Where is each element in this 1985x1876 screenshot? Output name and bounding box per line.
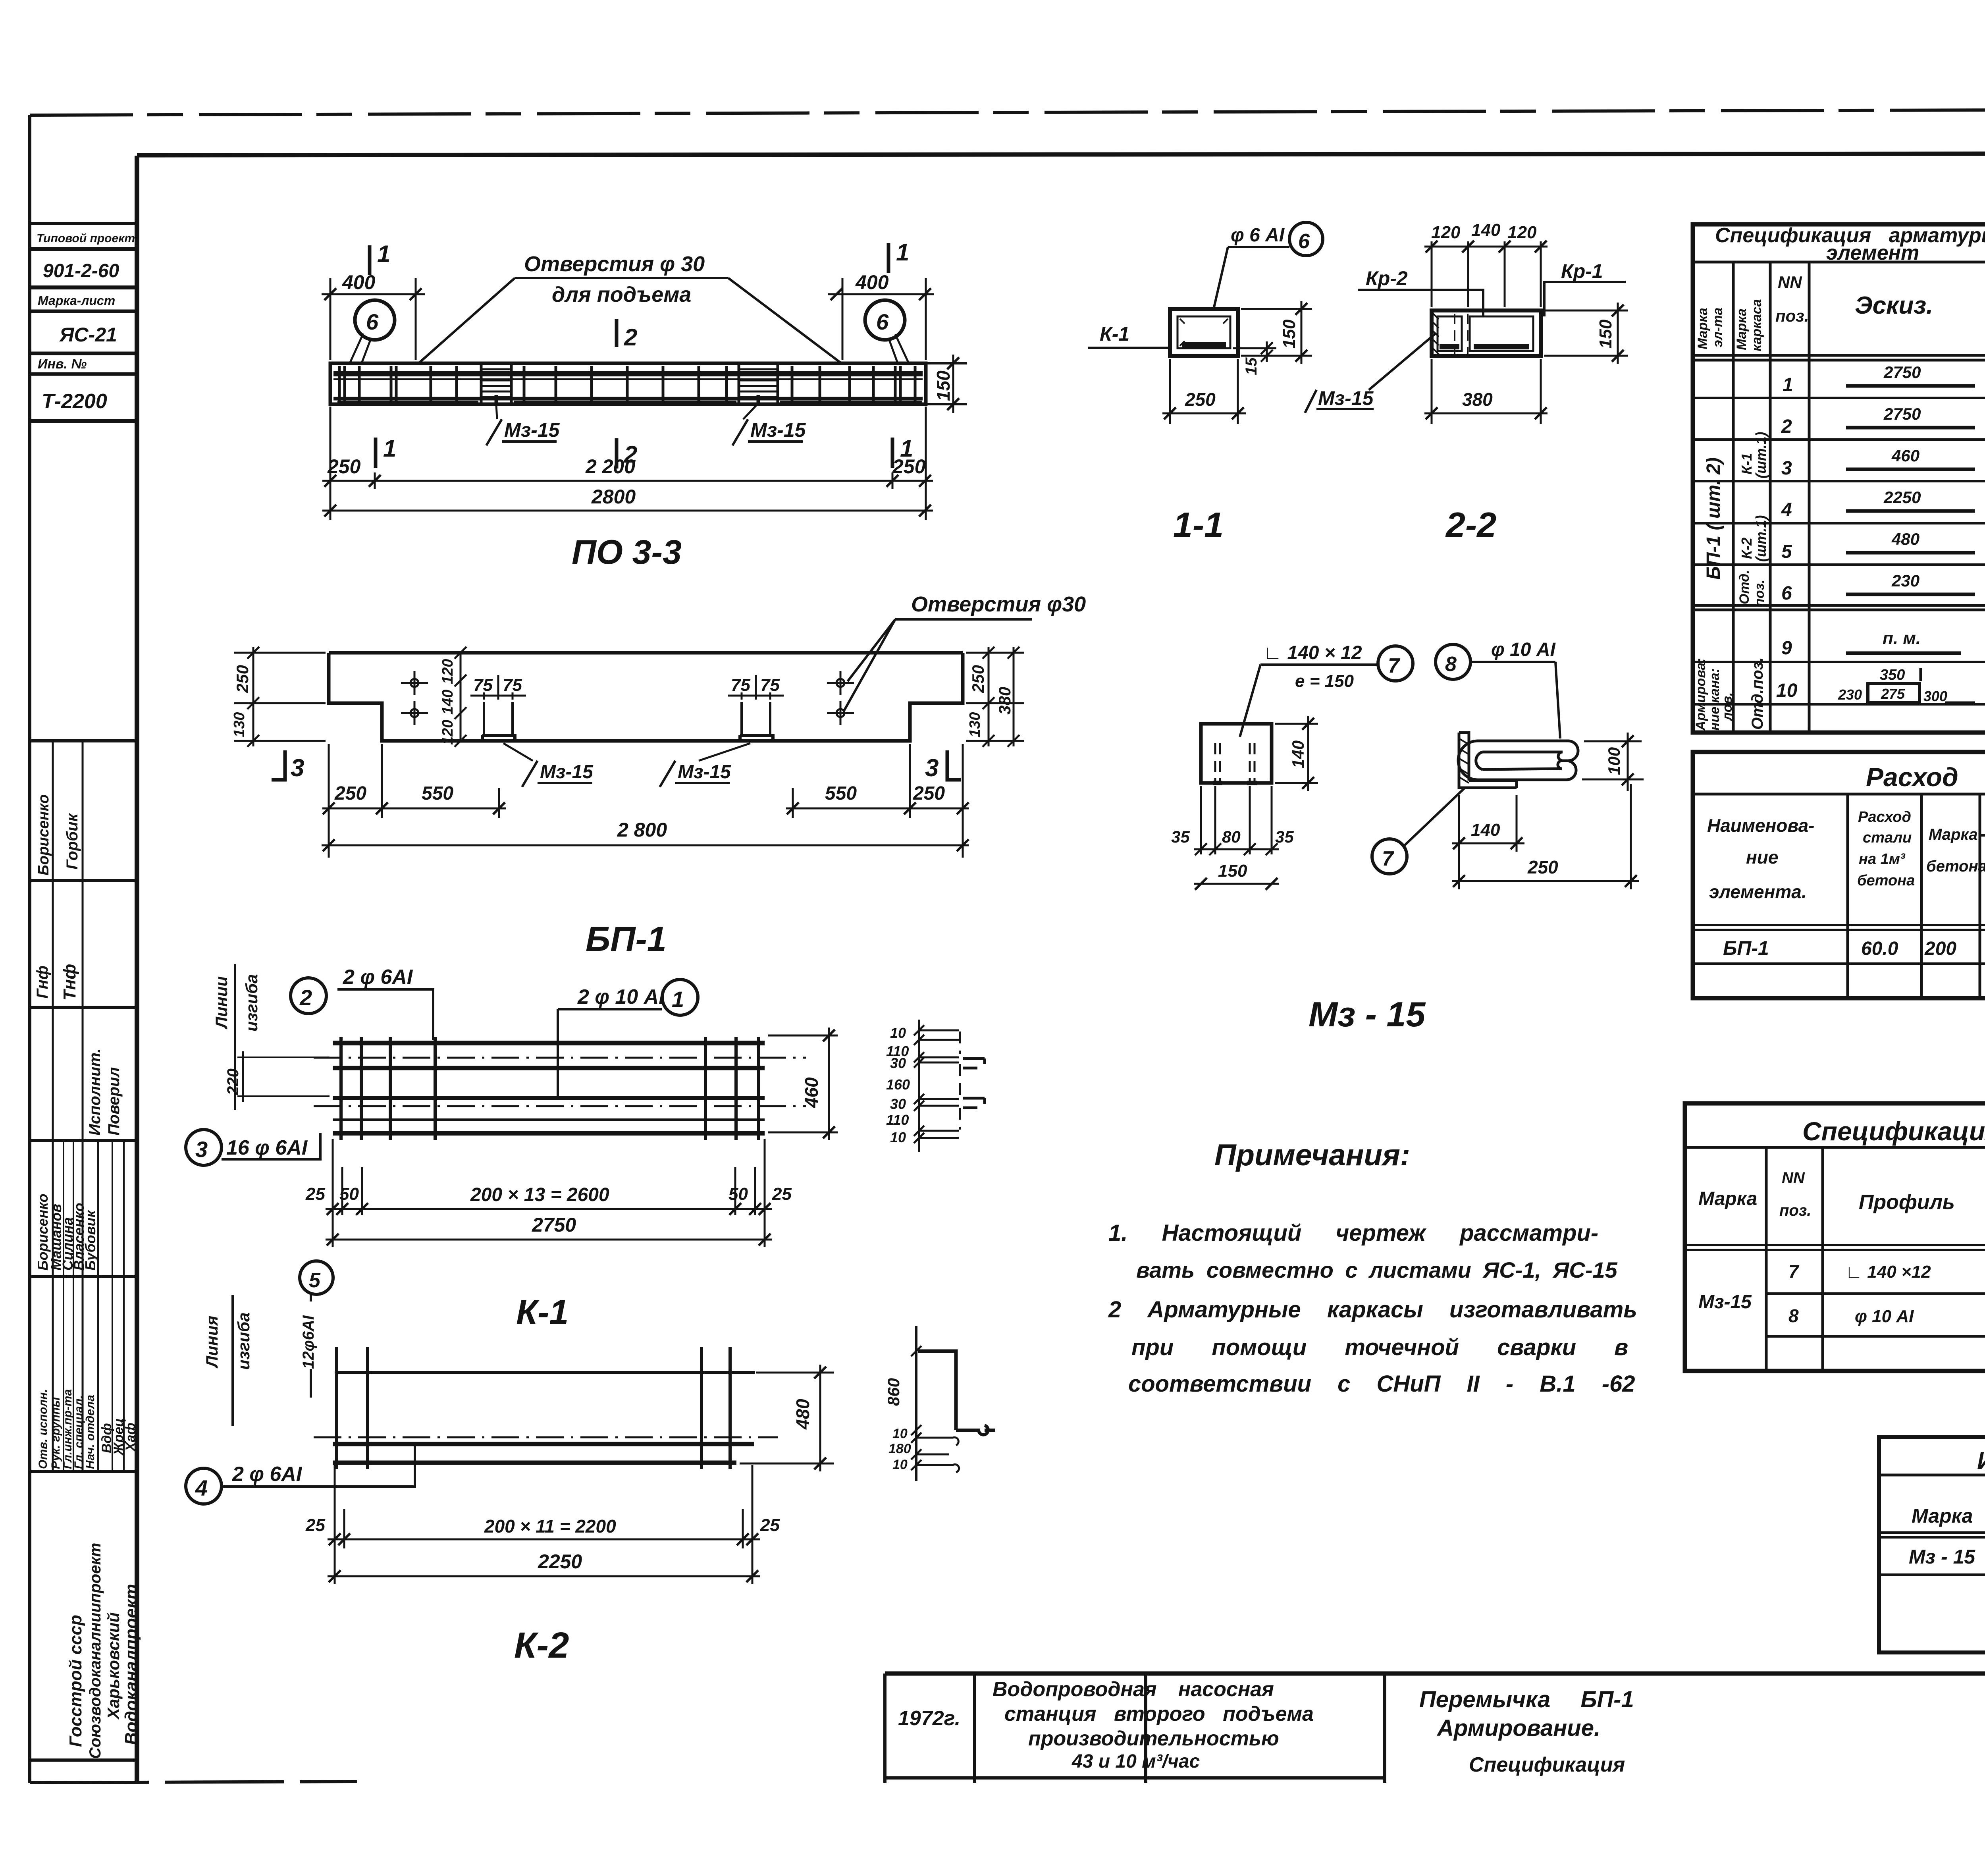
svg-text:100: 100 [1605,747,1623,775]
svg-text:35: 35 [1275,827,1294,846]
header lines [1693,261,1985,264]
svg-text:120: 120 [439,659,456,684]
callout 5 rotated label [300,1261,333,1294]
stirrups [339,366,915,402]
svg-text:Наименова-: Наименова- [1707,815,1814,836]
svg-text:2: 2 [1781,416,1792,437]
svg-text:Исполнит.: Исполнит. [86,1048,104,1136]
svg-text:1: 1 [672,987,684,1012]
svg-text:150: 150 [1280,319,1299,349]
svg-text:140: 140 [1471,220,1501,240]
right mini sketch 860 [915,1326,917,1481]
section cut 1 right top [887,243,890,273]
svg-text:6: 6 [1781,583,1792,604]
svg-text:элемент: элемент [1826,241,1919,264]
svg-text:4: 4 [195,1475,208,1500]
svg-text:Типовой проект: Типовой проект [37,232,135,245]
svg-text:поз.: поз. [1775,307,1809,325]
svg-text:Поверил: Поверил [105,1067,123,1136]
svg-text:соответствии с СНиП II - В.: соответствии с СНиП II - В.1 -62 [1128,1371,1635,1397]
svg-text:2-2: 2-2 [1445,505,1496,544]
bottom title block [885,1674,1985,1783]
svg-text:10: 10 [890,1025,906,1041]
svg-text:120: 120 [1507,223,1537,242]
svg-text:Отверстия φ 30: Отверстия φ 30 [524,252,705,276]
bottom dims 250 / 2200 / 250 [330,407,926,520]
svg-text:NN: NN [1782,1169,1805,1187]
svg-text:Отд.поз.: Отд.поз. [1749,657,1766,730]
svg-text:Армирование.: Армирование. [1436,1715,1600,1741]
detail M3-15 [1171,639,1644,1034]
svg-text:Отверстия φ30: Отверстия φ30 [911,592,1086,616]
bottom dims [335,1465,752,1584]
svg-text:30: 30 [890,1096,906,1112]
bend line [231,1295,234,1426]
svg-text:К-2: К-2 [1738,538,1755,559]
svg-text:Харьковский: Харьковский [104,1612,123,1720]
svg-text:200 × 11 = 2200: 200 × 11 = 2200 [484,1516,616,1537]
svg-text:станция второго подъема: станция второго подъема [1004,1702,1314,1726]
svg-text:∟ 140 ×12: ∟ 140 ×12 [1845,1262,1931,1282]
svg-text:150: 150 [1596,319,1615,349]
sheet inner border left (title strip right edge) [135,156,139,1783]
svg-text:Мз-15: Мз-15 [750,419,806,441]
svg-text:12φ6АI: 12φ6АI [300,1315,317,1369]
svg-text:Отд.: Отд. [1737,570,1752,604]
right mini stirrup sketch [918,1020,920,1152]
svg-text:1: 1 [383,435,396,462]
svg-text:860: 860 [884,1378,903,1406]
circle 8 and label f10AI [1436,644,1470,679]
svg-text:5: 5 [1781,541,1792,562]
callout 4 [186,1468,222,1504]
embedded angle left [482,735,515,741]
svg-text:(шт.1): (шт.1) [1753,432,1769,478]
svg-text:Бубовик: Бубовик [82,1210,98,1271]
svg-text:480: 480 [1891,530,1919,548]
stirrups [337,1347,730,1469]
bend line [234,964,236,1110]
svg-text:275: 275 [1881,686,1905,702]
sheet outer border left [28,115,31,1783]
svg-text:при помощи точечной сварки: при помощи точечной сварки в [1131,1334,1628,1360]
hook bar (U-bar with hooked ends) [1478,741,1578,761]
svg-text:Мз-15: Мз-15 [678,762,731,783]
svg-text:250: 250 [892,455,926,478]
dim 100 right [1582,741,1644,779]
svg-text:2 Арматурные каркасы изгота: 2 Арматурные каркасы изготавливать [1108,1297,1637,1323]
svg-text:Марка: Марка [1695,308,1710,349]
svg-text:Мз - 15: Мз - 15 [1309,995,1426,1034]
svg-text:140: 140 [439,690,456,715]
svg-text:на 1м³: на 1м³ [1859,851,1906,868]
svg-text:460: 460 [801,1077,822,1108]
dim 400 right [842,278,926,360]
dim 75 75 left [470,675,526,700]
svg-text:8: 8 [1445,653,1457,676]
svg-text:Примечания:: Примечания: [1214,1138,1410,1172]
svg-text:250: 250 [233,665,252,693]
svg-text:50: 50 [339,1184,359,1204]
notes block [1108,1138,1637,1397]
svg-text:Рук. группы: Рук. группы [49,1397,62,1469]
svg-text:200 × 13 = 2600: 200 × 13 = 2600 [470,1184,609,1205]
svg-text:К-1: К-1 [1738,453,1755,474]
svg-text:150: 150 [933,370,954,401]
svg-text:10: 10 [890,1129,906,1145]
dim 150 right [1544,310,1628,356]
svg-text:φ 6 АI: φ 6 АI [1231,225,1285,246]
svg-text:550: 550 [422,783,453,804]
callout circle 6 left [355,300,395,340]
overall dim 2800 [322,510,933,512]
svg-text:ПО 3-3: ПО 3-3 [572,533,682,571]
dim 150 right [929,363,965,404]
internal verticals [52,741,54,1471]
svg-text:250: 250 [1527,857,1558,877]
svg-text:10: 10 [1776,680,1798,701]
svg-text:75: 75 [503,675,522,695]
svg-text:лов.: лов. [1720,692,1735,721]
svg-text:30: 30 [890,1055,906,1071]
svg-text:3: 3 [291,754,304,782]
embedded angle right [740,735,773,741]
svg-text:6: 6 [366,309,379,334]
table: materials consumption [1693,752,1985,998]
svg-text:1972г.: 1972г. [898,1707,960,1730]
svg-text:230: 230 [1891,571,1919,590]
svg-text:110: 110 [886,1112,909,1128]
svg-text:6: 6 [1298,230,1310,253]
embedded part hatch right [739,364,778,404]
svg-text:901-2-60: 901-2-60 [43,260,119,281]
svg-text:Мз-15: Мз-15 [540,762,594,783]
dim 380 bottom [1432,359,1541,424]
svg-text:2250: 2250 [1883,488,1921,507]
embedded part hatch left [481,364,511,404]
svg-text:16 φ 6АI: 16 φ 6АI [226,1136,308,1159]
drawing K-1 : reinforcement cage [186,964,985,1332]
svg-text:2 φ 6АI: 2 φ 6АI [343,966,413,989]
dim 250 bottom [1170,359,1238,424]
svg-text:Марка: Марка [1912,1505,1973,1527]
section marks 3 [272,750,285,780]
svg-text:550: 550 [825,783,857,804]
svg-text:25: 25 [772,1184,792,1204]
svg-text:460: 460 [1891,446,1919,465]
plate view [1201,724,1272,783]
svg-text:Инв. №: Инв. № [38,357,87,372]
callout 3 [186,1130,222,1165]
dim 140 right of plate [1275,724,1318,783]
svg-text:75: 75 [760,675,780,695]
svg-text:Армирова:: Армирова: [1693,658,1708,731]
stirrups [341,1037,759,1140]
drawing PO 3-3 : beam elevation [322,239,967,571]
svg-text:e = 150: e = 150 [1295,671,1354,691]
dim 120 140 120 vertical at holes [460,653,462,741]
label M3-15 [1305,390,1374,413]
svg-text:вать совместно с листами ЯС: вать совместно с листами ЯС-1, ЯС-15 [1136,1257,1618,1282]
svg-text:4: 4 [1781,499,1792,521]
svg-text:Марка: Марка [1734,308,1749,350]
svg-text:2750: 2750 [1883,363,1921,382]
svg-text:2: 2 [299,985,312,1010]
svg-text:300: 300 [1923,688,1947,704]
dim 150 under plate [1194,883,1279,885]
drawing K-2 : reinforcement cage [186,1261,995,1666]
svg-text:изгиба: изгиба [234,1312,253,1370]
svg-text:Водопроводная насосная: Водопроводная насосная [992,1678,1274,1701]
sheet inner border top [137,153,1985,155]
svg-text:(шт.1): (шт.1) [1753,515,1769,562]
svg-text:Эскиз.: Эскиз. [1855,292,1933,319]
top dims 120 140 120 [1432,241,1541,307]
svg-text:3: 3 [195,1137,208,1162]
dim 75 75 right [728,675,784,700]
svg-text:1: 1 [1783,374,1793,395]
svg-text:Марка: Марка [1698,1188,1757,1209]
svg-text:Марка: Марка [1929,826,1978,843]
svg-text:Линия: Линия [202,1316,221,1369]
callout 1 [662,979,698,1015]
overall 2250 [328,1575,760,1577]
svg-text:Нач. отдела: Нач. отдела [84,1395,97,1469]
svg-text:2750: 2750 [532,1214,576,1236]
dims 35 80 35 under plate [1201,786,1272,854]
section cut 1 left [368,245,372,275]
svg-text:Мз-15: Мз-15 [1698,1292,1752,1313]
svg-text:3: 3 [1781,458,1792,479]
left signature strip [30,741,141,1760]
svg-text:250: 250 [327,455,361,478]
svg-text:250: 250 [969,665,987,693]
svg-text:К-1: К-1 [1100,323,1129,345]
svg-text:Профиль: Профиль [1859,1191,1955,1214]
section 1-1 [1088,222,1323,544]
top chord [333,371,923,376]
table: metal specification [1685,1103,1985,1371]
dim 150 right [1241,309,1312,356]
bottom dims [333,1139,765,1247]
svg-text:80: 80 [1222,827,1241,846]
svg-text:1: 1 [896,239,909,266]
svg-text:25: 25 [305,1515,325,1535]
svg-text:120: 120 [439,720,456,745]
section cut 1 marks bottom [374,438,378,468]
svg-text:120: 120 [1431,223,1461,242]
svg-text:Тнф: Тнф [60,964,79,1001]
svg-text:7: 7 [1388,654,1400,677]
svg-text:130: 130 [231,712,248,737]
svg-text:2 φ 6АI: 2 φ 6АI [232,1463,303,1486]
cage bars [333,1041,765,1045]
svg-text:75: 75 [473,675,493,695]
svg-text:для подъема: для подъема [552,283,691,307]
verticals [1733,262,1985,733]
svg-text:Марка-лист: Марка-лист [38,293,115,308]
svg-text:БП-1 ( шт. 2): БП-1 ( шт. 2) [1703,457,1724,580]
flag M3-15 left [486,419,557,445]
dim 15 [1233,347,1276,349]
svg-text:К-1: К-1 [516,1292,569,1332]
svg-text:Гнф: Гнф [34,966,51,999]
svg-text:250: 250 [1185,389,1216,410]
svg-text:43 и 10 м³/час: 43 и 10 м³/час [1072,1751,1200,1772]
svg-text:Т-2200: Т-2200 [42,390,107,413]
svg-text:50: 50 [728,1184,748,1204]
svg-text:NN: NN [1778,273,1802,291]
svg-text:3: 3 [925,754,939,782]
svg-text:Расход материалов.: Расход материалов. [1866,762,1985,792]
svg-text:140: 140 [1289,740,1307,768]
callout 2 [291,978,326,1014]
svg-text:бетона: бетона [1926,858,1985,875]
svg-text:400: 400 [342,271,376,293]
svg-text:Отв. исполн.: Отв. исполн. [37,1389,50,1469]
svg-text:15: 15 [1243,357,1260,375]
profile outline [329,653,963,741]
svg-text:Мз - 15: Мз - 15 [1909,1546,1975,1568]
svg-text:480: 480 [792,1399,813,1430]
svg-text:2800: 2800 [591,486,636,508]
svg-text:Водоканалпроект: Водоканалпроект [121,1584,141,1745]
svg-text:БП-1: БП-1 [1723,937,1769,959]
svg-text:2250: 2250 [538,1550,582,1573]
dim 400 left [330,278,416,360]
svg-text:10: 10 [892,1457,908,1472]
svg-text:∟ 140 × 12: ∟ 140 × 12 [1263,642,1362,663]
svg-text:Госстрой ссср: Госстрой ссср [66,1615,85,1747]
dim 460 right [768,1035,838,1132]
svg-text:поз.: поз. [1779,1202,1811,1219]
right vertical dims 250 / 130 / 380 [966,653,1024,741]
svg-text:9: 9 [1781,638,1792,659]
svg-text:Изготовить: Изготовить [1977,1447,1985,1475]
svg-text:1-1: 1-1 [1173,505,1224,544]
svg-text:каркаса: каркаса [1749,299,1764,351]
overall dim 2800 [322,844,969,846]
drawing BP-1 : beam profile [231,592,1086,958]
svg-text:бетона: бетона [1857,872,1915,889]
circle 7 leader [1372,839,1407,874]
svg-text:60.0: 60.0 [1861,938,1898,959]
svg-text:35: 35 [1171,827,1190,846]
callout circle 6 right [865,300,905,340]
hole crosses right [827,671,854,725]
svg-text:230: 230 [1838,686,1862,703]
svg-text:140: 140 [1471,820,1500,840]
svg-text:изгиба: изгиба [242,974,261,1032]
svg-text:Спецификация: Спецификация [1469,1753,1625,1776]
section cut 2 marks [615,319,619,347]
svg-text:1: 1 [377,241,390,267]
svg-text:7: 7 [1788,1261,1800,1282]
svg-text:Кр-2: Кр-2 [1366,267,1408,289]
svg-text:250: 250 [334,783,366,804]
svg-text:стали: стали [1863,829,1912,846]
svg-text:25: 25 [305,1184,325,1204]
svg-text:Расход: Расход [1858,809,1911,825]
svg-text:8: 8 [1788,1305,1799,1326]
svg-text:поз.: поз. [1752,580,1767,607]
svg-text:Спецификация металла: Спецификация металла [1802,1116,1985,1146]
svg-text:Хаф: Хаф [123,1423,138,1452]
table: to manufacture [1879,1437,1985,1652]
left title strip top boxes [30,224,137,421]
section 2-2 [1305,220,1628,544]
svg-text:5: 5 [309,1269,321,1292]
bottom chord [333,397,923,401]
svg-text:БП-1: БП-1 [586,919,667,958]
svg-text:10: 10 [892,1426,908,1441]
svg-text:180: 180 [888,1441,911,1456]
svg-text:производительностью: производительностью [1028,1727,1279,1750]
flag M3-15 right [660,761,730,787]
svg-text:380: 380 [995,687,1014,715]
svg-text:Мз-15: Мз-15 [1318,387,1374,409]
svg-text:380: 380 [1462,389,1493,410]
svg-text:400: 400 [855,271,889,293]
svg-text:6: 6 [876,309,889,334]
svg-text:160: 160 [886,1076,910,1093]
table: specification of reinforcement [1693,224,1985,733]
svg-text:2 800: 2 800 [617,819,667,841]
svg-text:130: 130 [967,712,983,737]
svg-text:350: 350 [1880,667,1905,683]
svg-text:Мз-15: Мз-15 [504,419,560,441]
row lines [1693,398,1985,704]
svg-text:Кр-1: Кр-1 [1561,260,1603,282]
beam outline [330,363,926,404]
overall 2750 [326,1239,772,1241]
dim 250 under bar [1630,784,1632,889]
svg-text:Горбик: Горбик [64,813,81,870]
dim 480 right [740,1373,834,1463]
svg-text:1. Настоящий чертеж рассм: 1. Настоящий чертеж рассматри- [1108,1220,1598,1246]
flag M3-15 left [522,761,592,787]
svg-text:75: 75 [731,675,750,695]
left vertical dims 250 / 130 [234,653,326,741]
svg-text:Борисенко: Борисенко [35,794,52,875]
sheet bottom border [30,1782,357,1783]
svg-text:φ 10 АI: φ 10 АI [1491,639,1556,660]
svg-text:К-2: К-2 [514,1625,569,1666]
svg-text:п. м.: п. м. [1883,629,1921,648]
svg-text:2: 2 [624,324,637,351]
svg-text:Союзводоканалниипроект: Союзводоканалниипроект [87,1543,104,1759]
flag M3-15 right [732,419,803,445]
svg-text:2 φ 10 АI: 2 φ 10 АI [577,985,665,1008]
dim 140 under angle [1459,795,1517,889]
svg-text:220: 220 [224,1068,242,1095]
svg-text:250: 250 [913,783,945,804]
svg-text:2 200: 2 200 [585,455,635,478]
angle leg hatched [1459,733,1517,788]
svg-text:7: 7 [1382,847,1394,870]
svg-text:ЯС-21: ЯС-21 [59,324,117,346]
svg-text:ние: ние [1746,847,1778,868]
svg-text:25: 25 [760,1515,780,1535]
bottom dims 250 550 [329,744,963,858]
svg-text:элемента.: элемента. [1709,881,1807,902]
cage bars [335,1371,755,1374]
svg-text:эл-та: эл-та [1710,308,1725,347]
svg-text:Линии: Линии [212,976,231,1030]
svg-text:φ 10 АI: φ 10 АI [1855,1307,1914,1326]
svg-text:150: 150 [1218,861,1247,881]
svg-text:2750: 2750 [1883,405,1921,423]
